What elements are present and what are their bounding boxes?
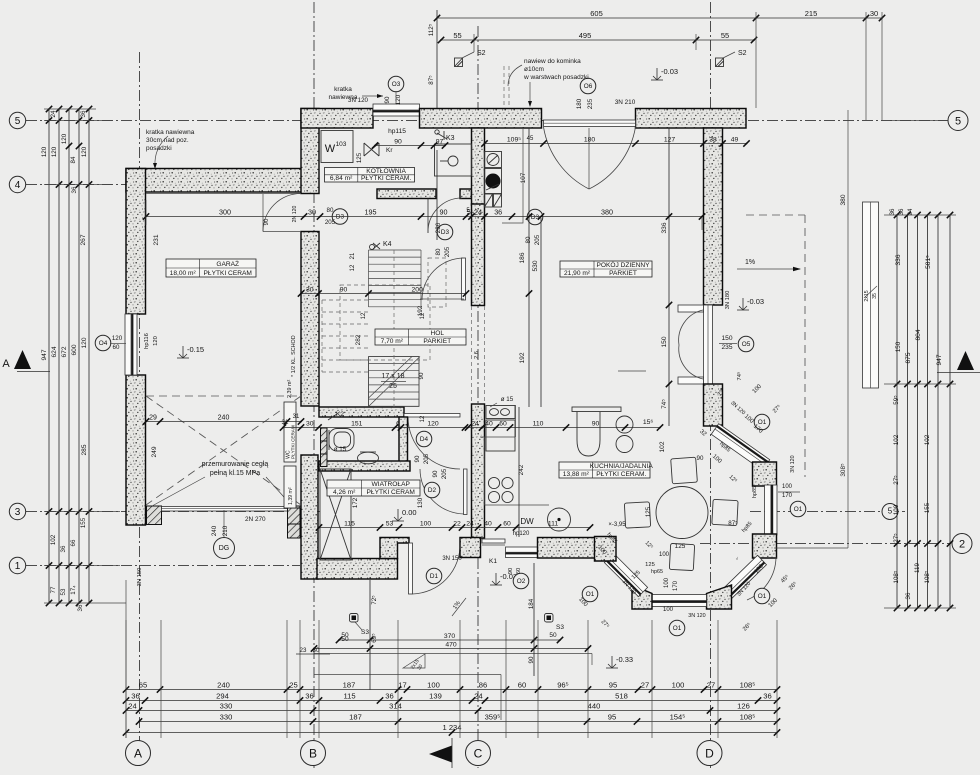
svg-text:90: 90 — [508, 568, 514, 574]
grid bubble 4 left — [9, 176, 25, 192]
svg-text:90: 90 — [418, 372, 425, 379]
svg-text:17: 17 — [398, 680, 406, 689]
octagon NE window band — [711, 424, 769, 471]
svg-text:hp115: hp115 — [388, 128, 406, 135]
terrace door arc SE — [747, 557, 776, 600]
svg-text:kratka: kratka — [334, 86, 352, 93]
svg-text:125: 125 — [645, 562, 655, 568]
wall: C axis vertical lower — [472, 404, 485, 538]
svg-text:K4: K4 — [383, 241, 392, 248]
kotlownia dims — [375, 145, 445, 147]
svg-text:109⁵: 109⁵ — [507, 136, 521, 143]
svg-text:3: 3 — [15, 507, 21, 518]
octagon SW diagonal window band — [604, 553, 647, 596]
svg-text:12: 12 — [420, 415, 426, 422]
axis 5 horizontal — [26, 120, 948, 122]
svg-text:1: 1 — [15, 561, 21, 572]
svg-text:12: 12 — [350, 264, 356, 271]
svg-text:-0.03: -0.03 — [661, 67, 678, 76]
svg-text:PARKIET: PARKIET — [609, 270, 637, 277]
svg-text:3N 120: 3N 120 — [790, 455, 796, 472]
svg-text:90: 90 — [394, 138, 402, 145]
dim top extension lines — [755, 12, 757, 108]
octagon S window band — [652, 595, 707, 607]
svg-text:192: 192 — [519, 352, 526, 363]
svg-text:804: 804 — [915, 329, 922, 340]
level 0.00 wiatrolap — [397, 509, 399, 521]
grid bubble 1 left — [9, 557, 25, 573]
bottom extension lines — [125, 620, 127, 738]
svg-text:95: 95 — [609, 680, 617, 689]
svg-text:36: 36 — [385, 691, 393, 700]
svg-text:120: 120 — [153, 336, 159, 346]
octagon pillar SE — [753, 534, 777, 558]
pillar: garage door left (hatched) — [147, 506, 162, 525]
svg-text:6,84 m²: 6,84 m² — [330, 175, 353, 182]
svg-text:187: 187 — [349, 712, 362, 721]
svg-text:POKÓJ DZIENNY: POKÓJ DZIENNY — [596, 260, 650, 269]
svg-text:hp120: hp120 — [513, 531, 530, 537]
svg-text:947: 947 — [41, 349, 48, 360]
door D3 garage-hall leaf+arc — [263, 194, 301, 232]
svg-text:205: 205 — [441, 468, 448, 479]
level -0.03 entry — [495, 573, 497, 585]
svg-text:K1: K1 — [489, 558, 497, 565]
wall: top exterior B-C segment — [420, 109, 542, 129]
stairs walk line dashed — [393, 250, 395, 407]
svg-text:100: 100 — [420, 520, 432, 527]
svg-text:13,88 m²: 13,88 m² — [563, 471, 590, 478]
svg-text:84: 84 — [70, 156, 77, 163]
S2 right symbol — [716, 58, 724, 67]
garage inner top line — [146, 193, 301, 195]
svg-text:97: 97 — [436, 138, 444, 145]
axis 3 horizontal — [26, 511, 320, 513]
svg-text:102: 102 — [893, 434, 900, 445]
wall: living room right exterior — [704, 128, 723, 305]
kitchen tall cabinet outline — [502, 128, 523, 223]
svg-text:35: 35 — [872, 293, 878, 299]
svg-text:D2: D2 — [428, 487, 437, 494]
svg-text:36: 36 — [905, 592, 912, 599]
svg-text:581⁵: 581⁵ — [925, 255, 932, 269]
svg-text:336: 336 — [661, 222, 668, 233]
svg-text:184: 184 — [528, 598, 535, 609]
kitchen wc-like fixture — [572, 407, 621, 412]
dim row garage y421 — [146, 421, 301, 423]
svg-text:74⁵: 74⁵ — [661, 399, 668, 409]
svg-text:49: 49 — [731, 136, 739, 143]
svg-text:18,00 m²: 18,00 m² — [170, 270, 197, 277]
axis 1 horizontal — [26, 565, 300, 567]
svg-text:380: 380 — [840, 194, 847, 205]
svg-text:S2: S2 — [738, 50, 747, 57]
svg-text:87⁵: 87⁵ — [428, 75, 435, 85]
svg-text:150: 150 — [895, 341, 902, 352]
svg-text:5: 5 — [955, 116, 961, 128]
svg-text:108⁵: 108⁵ — [893, 570, 900, 583]
grid bubble 2 right — [952, 534, 972, 554]
svg-text:D3: D3 — [336, 214, 345, 221]
svg-text:38: 38 — [709, 136, 717, 143]
svg-text:235: 235 — [721, 344, 732, 351]
svg-text:21,90 m²: 21,90 m² — [564, 270, 591, 277]
svg-text:27: 27 — [641, 680, 649, 689]
wall: kotlownia top exterior — [301, 109, 373, 129]
svg-text:KUCHNIA/JADALNIA: KUCHNIA/JADALNIA — [590, 463, 654, 470]
room label WIATROLAP — [327, 480, 420, 496]
svg-text:192: 192 — [417, 305, 424, 316]
svg-text:624: 624 — [51, 346, 58, 357]
svg-text:108⁵: 108⁵ — [924, 570, 931, 583]
wiatrolap chimney X-box — [320, 469, 351, 560]
dim chain bottom row1 — [126, 689, 777, 691]
svg-text:17₄: 17₄ — [70, 585, 77, 595]
grid bubble 5 right — [948, 111, 968, 131]
svg-text:50: 50 — [549, 632, 557, 639]
svg-text:2N 270: 2N 270 — [245, 516, 266, 523]
svg-text:53: 53 — [60, 588, 67, 595]
svg-text:380: 380 — [601, 207, 613, 216]
svg-text:172: 172 — [352, 497, 359, 508]
svg-text:86: 86 — [479, 680, 487, 689]
section marker A left — [14, 350, 31, 369]
svg-text:90: 90 — [264, 218, 270, 225]
svg-text:314: 314 — [389, 701, 402, 710]
stairs diagonal cut — [369, 357, 421, 407]
svg-text:90: 90 — [340, 286, 348, 293]
svg-text:36: 36 — [890, 208, 896, 215]
svg-text:×-3,95: ×-3,95 — [608, 522, 626, 528]
svg-text:36: 36 — [763, 691, 771, 700]
stairs dashed under-run — [322, 299, 368, 301]
grid bubble 3 left — [9, 503, 25, 519]
door D1 leaf+arc — [409, 543, 413, 594]
svg-text:O1: O1 — [673, 625, 682, 632]
stair dims — [301, 293, 466, 295]
left chain top ticks — [46, 106, 52, 112]
dim chain top row1 605/215/30 — [437, 17, 882, 19]
room label KOTLOWNIA — [325, 168, 415, 183]
svg-text:24: 24 — [474, 691, 482, 700]
svg-text:90: 90 — [697, 455, 704, 462]
svg-text:30: 30 — [870, 9, 878, 18]
svg-text:236: 236 — [435, 222, 442, 233]
svg-text:24: 24 — [128, 701, 136, 710]
svg-text:S3: S3 — [361, 629, 369, 636]
svg-text:125: 125 — [645, 506, 652, 517]
svg-text:1,39 m²: 1,39 m² — [288, 487, 294, 505]
svg-text:C: C — [474, 746, 483, 760]
svg-text:125: 125 — [356, 152, 363, 163]
svg-text:24: 24 — [474, 207, 482, 216]
svg-text:111: 111 — [548, 520, 559, 527]
svg-text:100: 100 — [659, 552, 670, 558]
svg-text:110: 110 — [533, 420, 544, 427]
svg-text:D4: D4 — [420, 436, 429, 443]
svg-text:240: 240 — [217, 680, 230, 689]
door D2 leaf+arc — [464, 469, 468, 515]
WC toilet — [329, 429, 354, 452]
svg-text:Kr: Kr — [386, 147, 393, 154]
svg-text:155: 155 — [924, 502, 931, 513]
svg-text:205: 205 — [444, 246, 451, 257]
garage door leaf 2N 270 — [162, 507, 288, 512]
svg-text:90: 90 — [432, 470, 439, 477]
svg-text:40: 40 — [485, 420, 493, 427]
wall: kotlownia bottom / stair top — [377, 189, 436, 199]
svg-text:ø 15: ø 15 — [334, 446, 347, 453]
svg-text:O2: O2 — [517, 578, 526, 585]
svg-text:102: 102 — [50, 534, 57, 545]
svg-text:170: 170 — [673, 580, 679, 591]
svg-text:100: 100 — [427, 680, 440, 689]
svg-text:59⁵: 59⁵ — [893, 395, 900, 405]
svg-text:330: 330 — [220, 712, 233, 721]
svg-text:24: 24 — [471, 420, 479, 427]
svg-text:22: 22 — [453, 520, 461, 527]
S3 left symbol — [350, 614, 359, 623]
window hp120 kitchen bottom — [506, 547, 538, 558]
svg-text:36: 36 — [494, 207, 502, 216]
svg-text:127: 127 — [664, 136, 676, 143]
svg-text:151: 151 — [351, 420, 363, 427]
svg-text:155: 155 — [80, 517, 87, 528]
svg-text:330: 330 — [220, 701, 233, 710]
svg-text:600: 600 — [71, 344, 78, 355]
svg-text:30: 30 — [306, 420, 314, 427]
svg-text:-0.03: -0.03 — [747, 297, 764, 306]
svg-text:2,39 m²: 2,39 m² — [287, 380, 293, 398]
svg-text:D: D — [705, 746, 714, 760]
svg-text:96⁵: 96⁵ — [557, 680, 569, 689]
svg-text:O6: O6 — [584, 83, 593, 90]
S2 left symbol — [455, 58, 463, 67]
chimney stack flues — [485, 152, 502, 168]
svg-text:55: 55 — [721, 31, 729, 40]
svg-text:23: 23 — [300, 647, 307, 654]
svg-text:285: 285 — [81, 444, 88, 455]
svg-text:180: 180 — [584, 136, 596, 143]
svg-text:3N 150: 3N 150 — [137, 568, 143, 587]
svg-text:B: B — [309, 746, 317, 760]
svg-text:DG: DG — [219, 545, 230, 552]
svg-text:2N 120: 2N 120 — [292, 206, 298, 223]
svg-text:30: 30 — [313, 647, 320, 654]
svg-text:21: 21 — [350, 252, 356, 259]
svg-text:87⁵: 87⁵ — [728, 520, 738, 527]
svg-text:115: 115 — [343, 691, 355, 700]
door kotlownia-hall leaf+arc — [427, 199, 429, 234]
DG circle — [214, 538, 235, 559]
octagon pillar S-W corner — [632, 585, 652, 609]
svg-text:O1: O1 — [586, 591, 595, 598]
svg-text:36: 36 — [77, 604, 84, 611]
svg-text:40: 40 — [484, 520, 492, 527]
svg-text:126: 126 — [737, 701, 750, 710]
S3 right symbol — [545, 614, 554, 623]
svg-text:1%: 1% — [745, 259, 755, 266]
svg-text:27: 27 — [707, 680, 715, 689]
svg-text:90: 90 — [414, 455, 421, 462]
level -0.03 right — [742, 298, 744, 310]
svg-text:GARAŻ: GARAŻ — [216, 259, 239, 268]
grid bubble 5 inner on axis 3 — [882, 504, 898, 520]
svg-text:66: 66 — [70, 539, 77, 546]
svg-text:O3: O3 — [392, 81, 401, 88]
terrace vertical dim lines — [533, 563, 535, 676]
svg-text:36: 36 — [899, 208, 905, 215]
svg-text:60: 60 — [503, 520, 511, 527]
svg-text:65: 65 — [139, 680, 147, 689]
octagon pillar top (D wall) — [704, 384, 723, 426]
svg-text:DW: DW — [520, 517, 534, 526]
svg-text:1 234: 1 234 — [442, 723, 461, 732]
section marker right — [957, 351, 974, 370]
window O4 garage left wall — [125, 314, 137, 375]
level -0.15 garage — [182, 346, 184, 358]
svg-text:130: 130 — [417, 497, 424, 508]
D3 circle at dim row — [332, 209, 348, 225]
svg-text:36: 36 — [60, 545, 67, 552]
svg-text:187: 187 — [343, 680, 356, 689]
left chain horizontal extensions — [44, 120, 112, 122]
kitchen double sink circles — [616, 416, 633, 433]
svg-text:112⁵: 112⁵ — [428, 23, 435, 36]
wall: WC bottom / wiatrolap top — [319, 461, 410, 471]
wall: garage left exterior lower — [126, 375, 146, 525]
svg-text:24: 24 — [908, 208, 914, 215]
svg-text:120: 120 — [51, 146, 58, 157]
svg-text:215: 215 — [805, 9, 818, 18]
svg-text:7,70 m²: 7,70 m² — [381, 338, 404, 345]
svg-text:605: 605 — [590, 9, 603, 18]
window O3 3N120 top wall — [373, 104, 420, 116]
grid bubble D bottom — [697, 741, 722, 766]
svg-text:267: 267 — [80, 234, 87, 245]
chair right — [712, 499, 738, 525]
chair top — [671, 457, 698, 484]
O6 door label top — [580, 78, 596, 94]
svg-text:* 1/2 KL. SCHOD: * 1/2 KL. SCHOD — [291, 335, 297, 377]
O3 window label — [388, 76, 404, 92]
svg-text:120: 120 — [41, 146, 48, 157]
level -0.03 top — [656, 68, 658, 80]
kitchen counter edge — [515, 405, 517, 437]
svg-text:30: 30 — [306, 286, 314, 293]
svg-text:60: 60 — [499, 420, 507, 427]
svg-text:308⁵: 308⁵ — [840, 463, 847, 477]
O1 circles octagon — [754, 414, 770, 430]
svg-text:875: 875 — [905, 352, 912, 363]
svg-text:ø10cm: ø10cm — [524, 66, 544, 73]
svg-text:6: 6 — [396, 420, 400, 427]
dashed pass-through C wall — [471, 306, 473, 404]
room label POKOJ DZIENNY — [560, 261, 652, 277]
D1 circle — [426, 568, 442, 584]
svg-text:240: 240 — [218, 414, 230, 421]
svg-text:5: 5 — [15, 116, 21, 127]
door O5 leaves+arcs — [678, 305, 704, 312]
axis D vertical — [710, 2, 712, 768]
octagon pillar S-E corner — [707, 585, 732, 609]
Kr valve symbol — [364, 143, 379, 156]
svg-text:249: 249 — [151, 446, 158, 457]
axis B vertical — [313, 2, 315, 768]
svg-text:przemurowanie cegłą: przemurowanie cegłą — [202, 461, 269, 468]
dining table — [656, 487, 708, 539]
svg-text:PARKIET: PARKIET — [423, 338, 451, 345]
svg-text:240: 240 — [211, 525, 218, 536]
washing machine DW — [548, 508, 571, 531]
svg-text:15⁶: 15⁶ — [643, 419, 654, 426]
svg-text:30: 30 — [308, 207, 316, 216]
terrace right boundary — [847, 217, 849, 548]
svg-text:3N 210: 3N 210 — [615, 99, 636, 106]
svg-text:36: 36 — [305, 691, 313, 700]
right chain horiz extensions — [890, 120, 948, 122]
svg-text:hp116: hp116 — [144, 333, 150, 349]
D2 circle — [424, 482, 440, 498]
svg-text:95: 95 — [608, 712, 616, 721]
D3 circle kitchen door — [527, 209, 543, 225]
door D3 hall leaf+arc — [462, 258, 466, 300]
svg-text:A: A — [134, 746, 142, 760]
svg-text:4,26 m²: 4,26 m² — [333, 489, 356, 496]
dim row y216 garage-living — [146, 216, 702, 218]
O4 window label left — [95, 335, 111, 351]
svg-text:36: 36 — [71, 186, 78, 193]
svg-text:100: 100 — [664, 577, 670, 588]
svg-text:90: 90 — [384, 96, 391, 103]
svg-text:pełną kl.15 MPa: pełną kl.15 MPa — [210, 470, 260, 477]
svg-text:A: A — [2, 358, 10, 370]
svg-text:24: 24 — [50, 110, 57, 117]
svg-text:119: 119 — [914, 563, 921, 573]
svg-text:25: 25 — [289, 680, 297, 689]
wall: WC top — [319, 407, 404, 417]
svg-text:K2: K2 — [336, 411, 344, 418]
svg-text:150: 150 — [721, 335, 732, 342]
svg-text:359⁵: 359⁵ — [485, 712, 501, 721]
svg-text:336: 336 — [895, 254, 902, 265]
grid bubble A bottom — [126, 741, 151, 766]
svg-text:108⁵: 108⁵ — [740, 712, 756, 721]
section marker bottom (near C) — [429, 746, 452, 763]
door O6 arcs (double leaf) — [544, 127, 590, 189]
door D4 leaf+arc — [404, 414, 460, 418]
boiler W103 box — [321, 131, 353, 163]
svg-text:posadzki: posadzki — [146, 145, 172, 152]
svg-text:100: 100 — [782, 484, 793, 490]
wall: entry block right of D1 — [460, 538, 481, 558]
svg-text:O5: O5 — [742, 341, 751, 348]
svg-text:518: 518 — [615, 691, 628, 700]
svg-text:205: 205 — [423, 453, 430, 464]
svg-text:115: 115 — [344, 520, 355, 527]
svg-text:D3: D3 — [441, 229, 450, 236]
svg-text:69⁵: 69⁵ — [371, 633, 378, 643]
entry door K1 zone — [482, 539, 505, 543]
svg-text:0.00: 0.00 — [402, 508, 417, 517]
svg-text:80: 80 — [435, 248, 442, 255]
svg-text:470: 470 — [445, 641, 457, 648]
wall: WC right — [399, 417, 408, 462]
dim chain bottom row5 total — [126, 732, 777, 734]
svg-text:495: 495 — [579, 31, 592, 40]
svg-text:30cm nad poz.: 30cm nad poz. — [146, 137, 189, 144]
chair left — [624, 502, 650, 528]
